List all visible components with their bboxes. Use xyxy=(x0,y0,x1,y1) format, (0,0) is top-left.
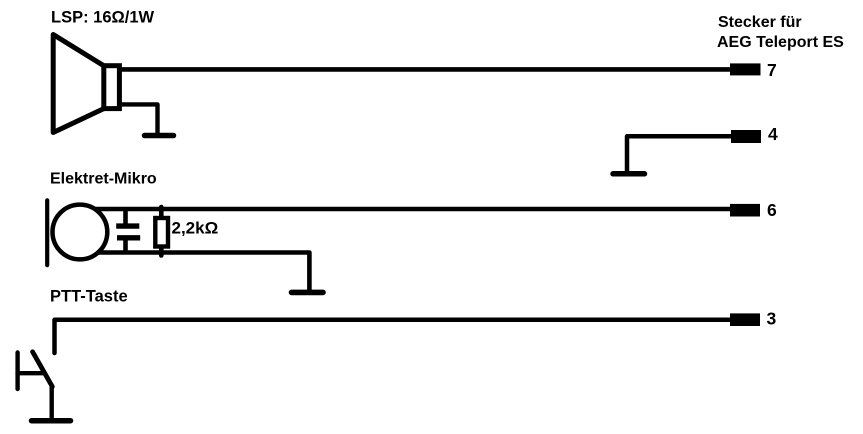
svg-text:LSP: 16Ω/1W: LSP: 16Ω/1W xyxy=(51,9,155,27)
wire pin 4 to ground xyxy=(627,136,731,174)
speaker LSP cone xyxy=(53,35,104,133)
pin 7 contact xyxy=(730,63,761,75)
svg-text:4: 4 xyxy=(768,124,778,144)
resistor R 2,2k lead xyxy=(159,207,164,256)
svg-text:Stecker für: Stecker für xyxy=(718,14,802,31)
capacitor top plate xyxy=(116,223,139,228)
resistor R 2,2k body xyxy=(155,218,168,247)
svg-text:7: 7 xyxy=(767,60,777,80)
switch push rod (PTT) xyxy=(18,371,44,375)
wire switch to ground xyxy=(50,386,54,420)
switch lever (PTT) xyxy=(33,352,53,387)
switch button bar (PTT) xyxy=(15,353,19,390)
speaker LSP driver rectangle xyxy=(104,66,120,109)
svg-text:AEG Teleport ES: AEG Teleport ES xyxy=(717,34,844,51)
microphone baffle line xyxy=(45,200,49,265)
svg-text:2,2kΩ: 2,2kΩ xyxy=(172,219,219,238)
ground (pin 4) xyxy=(613,171,645,177)
pin 3 contact xyxy=(730,313,760,326)
pin 6 contact xyxy=(730,204,760,217)
wire PTT switch to pin 3 xyxy=(55,320,732,353)
wire microphone to ground xyxy=(80,253,309,291)
wire speaker to ground xyxy=(121,104,158,134)
ground (PTT) xyxy=(32,418,71,424)
svg-text:Elektret-Mikro: Elektret-Mikro xyxy=(50,171,157,188)
capacitor top lead xyxy=(123,209,128,224)
svg-text:3: 3 xyxy=(767,309,777,329)
svg-text:PTT-Taste: PTT-Taste xyxy=(50,288,128,306)
pin 4 contact xyxy=(731,130,761,143)
svg-text:6: 6 xyxy=(767,200,777,220)
ground (microphone) xyxy=(292,290,324,296)
capacitor bottom plate xyxy=(117,235,140,240)
ground (speaker) xyxy=(145,133,174,139)
wire microphone to pin 6 xyxy=(80,207,731,212)
wire speaker to pin 7 xyxy=(121,67,731,72)
capacitor bottom lead xyxy=(123,240,128,253)
microphone capsule circle xyxy=(53,205,108,260)
